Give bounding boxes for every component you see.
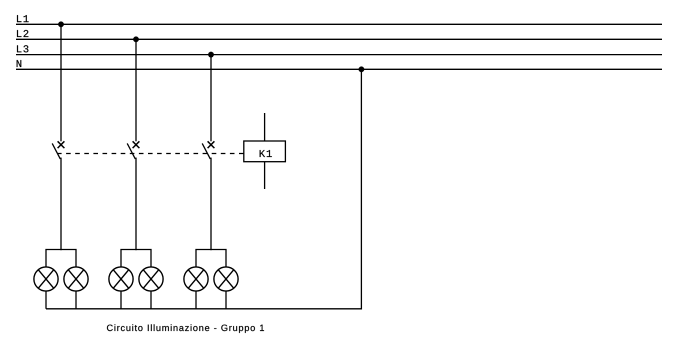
caption Circuito Illuminazione - Gruppo 1: [107, 324, 264, 333]
wire phase drop L3: [210, 55, 212, 142]
coil K1 box: [244, 141, 286, 162]
lamp E6: [214, 267, 238, 291]
contact K1 pole 1: [52, 141, 64, 159]
wire lamp E5 return: [195, 291, 197, 309]
lamp E2: [64, 267, 88, 291]
wire L2 bus: [16, 38, 662, 40]
label L2: [17, 30, 28, 37]
node junction L2 drop: [133, 37, 139, 43]
label N: [17, 60, 22, 67]
label L3: [17, 45, 28, 52]
coil K1 bottom lead: [264, 162, 266, 189]
label L1: [17, 15, 29, 22]
wire lamp E4 return: [150, 291, 152, 309]
node junction L3 drop: [208, 52, 214, 58]
wire lamp E2 return: [75, 291, 77, 309]
node junction L1 drop: [58, 22, 64, 28]
wire L3 bus: [16, 54, 662, 56]
wire T-bar group 1: [46, 250, 76, 268]
wire T-bar group 3: [196, 250, 226, 268]
lamp E4: [139, 267, 163, 291]
lamp E3: [109, 267, 133, 291]
wire switch3 to lamp group 3: [210, 158, 212, 251]
wire bottom return bus: [46, 69, 361, 308]
wire lamp E3 return: [120, 291, 122, 309]
label K1: [260, 150, 272, 157]
coil K1 top lead: [264, 113, 266, 141]
wire phase drop L1: [60, 24, 62, 141]
wire switch1 to lamp group 1: [60, 158, 62, 251]
wire lamp E6 return: [225, 291, 227, 309]
lamp E5: [184, 267, 208, 291]
wire switch2 to lamp group 2: [135, 158, 137, 251]
wire mechanical link (dashed): [57, 153, 244, 155]
wire N bus: [16, 68, 662, 70]
wire lamp E1 return: [45, 291, 47, 309]
wire T-bar group 2: [121, 250, 151, 268]
wire phase drop L2: [135, 39, 137, 141]
contact K1 pole 2: [127, 141, 139, 159]
lamp E1: [34, 267, 58, 291]
node junction N return: [359, 67, 365, 73]
wire L1 bus: [16, 23, 662, 25]
contact K1 pole 3: [202, 141, 214, 159]
